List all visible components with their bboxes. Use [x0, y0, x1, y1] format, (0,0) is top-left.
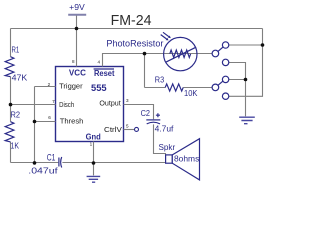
wire Thresh stub [35, 121, 56, 123]
svg-text:C1: C1 [47, 153, 56, 163]
wire Trigger stub [35, 86, 56, 88]
junction node S1 throw to right vertical [261, 43, 265, 47]
photoresistor zigzag [170, 50, 191, 57]
wire C2 bottom to speaker plus terminal [154, 124, 166, 155]
wire left vertical R1 top segment [10, 29, 12, 57]
switch S2 lever [218, 81, 223, 85]
photoresistor light arrow 2 [161, 35, 167, 39]
capacitor C1 curved plate [61, 157, 62, 168]
ctrlv open terminal circle [135, 127, 139, 131]
svg-text:Thresh: Thresh [60, 116, 84, 125]
junction node ground on bottom rail [92, 161, 96, 165]
capacitor C2 plus sign [156, 113, 160, 117]
wire bottom rail left of C1 [11, 162, 59, 164]
speaker SPKR box [166, 155, 173, 163]
speaker horn [172, 139, 199, 180]
capacitor C2 curved plate [147, 122, 160, 124]
junction node Thresh tap [33, 120, 37, 124]
svg-text:Gnd: Gnd [86, 133, 101, 142]
svg-text:VCC: VCC [69, 68, 86, 77]
svg-text:Disch: Disch [59, 100, 74, 109]
junction node trigger net on bottom rail [33, 161, 37, 165]
resistor R1 zigzag [5, 57, 14, 77]
capacitor C1 straight plate [58, 158, 60, 167]
svg-text:8ohms: 8ohms [174, 155, 199, 164]
wire Trigger-Thresh vertical down to bottom rail [34, 87, 36, 163]
svg-text:FM-24: FM-24 [111, 12, 152, 29]
junction node S2 throw on ground vertical [244, 78, 248, 82]
svg-text:4: 4 [97, 60, 100, 65]
svg-text:6: 6 [48, 115, 51, 120]
svg-text:R1: R1 [12, 45, 20, 54]
wire R3 branch vertical [144, 54, 146, 88]
svg-text:1: 1 [90, 141, 93, 146]
svg-text:4.7uf: 4.7uf [155, 125, 175, 134]
switch S2 pole circle [212, 84, 219, 91]
photoresistor arrowhead 2 [166, 38, 169, 41]
wire ground stem below pin 1 [93, 163, 95, 176]
op-amp/timer U1 555 box outline [56, 67, 124, 142]
ground symbol under 555 Gnd bars [87, 176, 101, 182]
resistor R2 zigzag [5, 122, 14, 142]
switch S2 bottom throw circle [222, 93, 228, 99]
resistor R3 zigzag [165, 84, 183, 91]
wire top +9V rail [11, 28, 263, 30]
wire switch S1 top throw to right vertical [229, 44, 263, 46]
switch S1 lever [218, 47, 223, 51]
wire Output pin 3 to C2 [124, 105, 154, 120]
ground symbol under switches bars [239, 117, 255, 124]
wire bottom rail right of C1 [62, 162, 165, 164]
svg-text:47K: 47K [12, 74, 28, 83]
wire CtrlV pin 5 stub [124, 129, 135, 131]
svg-text:5: 5 [126, 124, 129, 129]
photoresistor diagonal arrow [166, 47, 197, 62]
svg-text:Output: Output [99, 99, 120, 108]
junction node at +9V stem on rail [75, 27, 79, 31]
junction node reset/photoresistor/R3 [143, 52, 147, 56]
svg-text:555: 555 [91, 83, 107, 94]
photoresistor PR1 circle [164, 37, 197, 70]
svg-text:R3: R3 [155, 76, 165, 85]
wire Gnd pin 1 stub [93, 142, 95, 163]
switch S1 top throw circle [222, 42, 228, 48]
power bar +9V [68, 14, 86, 16]
svg-text:1K: 1K [11, 141, 20, 150]
wire Reset pin 4 up and right along photoresistor net to S1 pole [103, 54, 213, 67]
wire Disch pin7 to R1/R2 junction [11, 104, 56, 106]
svg-text:Spkr: Spkr [159, 143, 176, 152]
wire switch S2 top throw to ground vertical [229, 79, 246, 81]
svg-text:7: 7 [52, 99, 55, 104]
switch S1 bottom throw circle [222, 59, 228, 65]
switch S1 pole circle [212, 50, 219, 57]
wire R3 left lead [145, 87, 166, 89]
wire switch S1 bottom throw down to ground [229, 63, 246, 117]
wire VCC stem from power bar to pin 8 [76, 16, 78, 67]
svg-text:R2: R2 [11, 110, 21, 119]
svg-text:3: 3 [126, 98, 129, 103]
photoresistor light arrow 1 [163, 32, 169, 36]
photoresistor arrowhead 1 [168, 36, 171, 39]
svg-text:Reset: Reset [94, 69, 115, 78]
svg-text:8: 8 [72, 59, 75, 64]
wire right vertical from top rail down to S2 bottom throw [229, 29, 263, 97]
reset overline [94, 68, 114, 70]
svg-text:Trigger: Trigger [59, 81, 83, 90]
svg-text:PhotoResistor: PhotoResistor [106, 39, 163, 50]
wire left vertical between R1 and R2 [10, 77, 12, 122]
svg-text:10K: 10K [184, 89, 198, 98]
svg-text:.047uf: .047uf [28, 166, 58, 175]
svg-text:CtrlV: CtrlV [104, 125, 122, 134]
switch S2 top throw circle [222, 76, 228, 82]
capacitor C2 straight plate [146, 119, 160, 121]
junction node R1/R2/pin7 [9, 103, 13, 107]
svg-text:2: 2 [48, 82, 51, 87]
svg-text:C2: C2 [141, 109, 151, 118]
svg-text:+9V: +9V [69, 2, 85, 12]
wire R3 right lead to switch S2 pole [183, 87, 212, 89]
wire left vertical R2 bottom segment [10, 142, 12, 163]
